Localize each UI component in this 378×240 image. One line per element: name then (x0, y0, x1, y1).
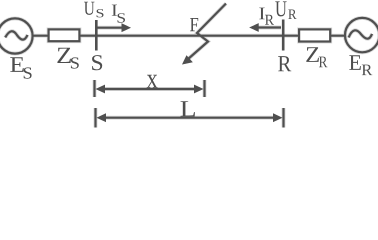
dimension x: right end tick at fault position (203, 80, 205, 97)
label E_S (10, 57, 31, 78)
label I_S (112, 5, 125, 23)
dimension x: shaft (102, 88, 197, 90)
fault bolt arrowhead (182, 55, 193, 64)
bus R (vertical bar) (282, 20, 285, 51)
fault bolt at F (188, 4, 227, 60)
label Z_R (306, 47, 327, 67)
label S (bus S) (92, 55, 102, 70)
label U_S (84, 2, 104, 18)
AC source ER (circle) (345, 18, 378, 52)
label x (distance to fault) (147, 75, 158, 88)
impedance ZR (box) (299, 29, 330, 41)
wire main transmission line from source ES through buses to source ER (34, 35, 345, 37)
AC source ES (circle) (0, 18, 33, 53)
bus S (vertical bar) (95, 20, 98, 51)
arrow IR (current into line at R) (249, 23, 281, 32)
label L (line length) (181, 101, 195, 116)
dimension x: right arrowhead (194, 85, 204, 94)
label U_R (275, 1, 296, 19)
sine wave inside ER (349, 30, 372, 38)
sine wave inside ES (5, 31, 27, 39)
dimension x: left end tick at bus S (93, 80, 95, 97)
dimension L: right end tick at bus R (282, 108, 284, 128)
label Z_S (57, 48, 78, 69)
dimension L: left arrowhead (97, 113, 107, 122)
dimension L: shaft (103, 117, 276, 119)
dimension L: left end tick at bus S (94, 108, 96, 128)
dimension x: left arrowhead (96, 85, 106, 94)
impedance ZS (box) (49, 29, 80, 41)
soft halo under-draw of all strokes (decorative, emulates source blur) (0, 4, 378, 128)
label E_R (349, 55, 372, 75)
label F (fault) (190, 18, 198, 31)
arrow IS (current into line at S) (98, 23, 132, 32)
label R (bus R) (278, 56, 291, 71)
label I_R (259, 8, 274, 25)
dimension L: right arrowhead (273, 113, 283, 122)
